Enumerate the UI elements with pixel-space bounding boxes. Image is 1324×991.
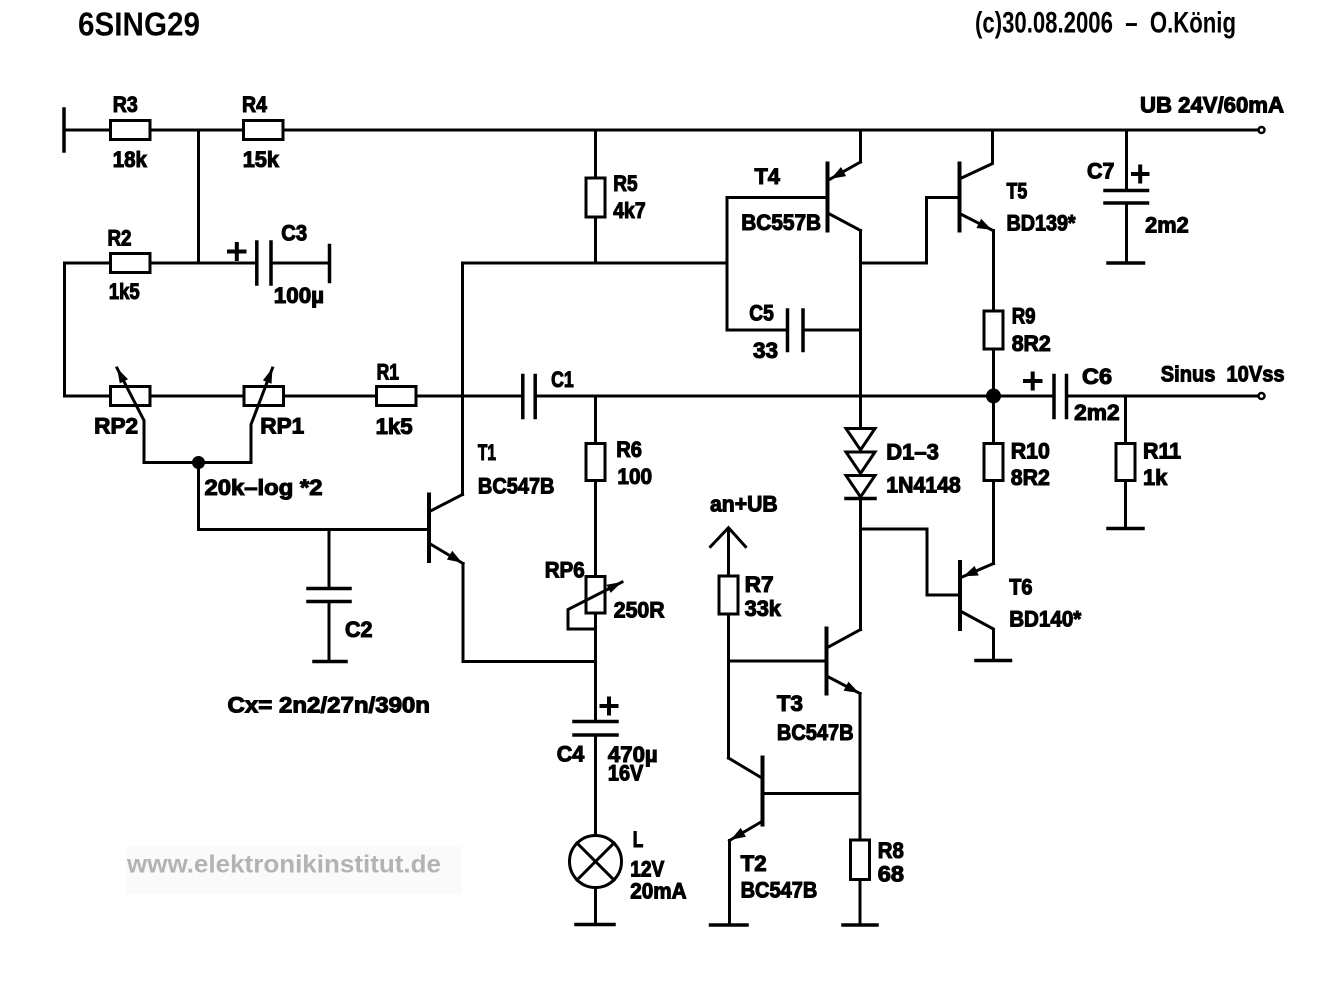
diode D2	[846, 452, 875, 474]
svg-text:20mA: 20mA	[630, 879, 686, 904]
svg-text:15k: 15k	[243, 147, 280, 172]
transistor T4 collector diagonal	[830, 214, 861, 231]
svg-text:1k5: 1k5	[109, 279, 140, 304]
svg-text:1k5: 1k5	[376, 414, 413, 439]
transistor T2 collector diagonal	[729, 758, 762, 778]
svg-text:BD139*: BD139*	[1007, 211, 1076, 236]
ground T6 bar	[976, 659, 1011, 663]
svg-text:BD140*: BD140*	[1009, 607, 1081, 632]
svg-text:R11: R11	[1143, 439, 1181, 464]
svg-text:R7: R7	[745, 572, 774, 597]
transistor T1 emitter diagonal	[430, 544, 464, 564]
node junction dot output	[986, 389, 1001, 404]
svg-text:6SING29: 6SING29	[78, 7, 200, 44]
svg-text:33k: 33k	[745, 596, 782, 621]
svg-text:RP1: RP1	[260, 414, 304, 439]
node input terminal bar left	[62, 109, 66, 151]
ground lamp bar	[576, 923, 614, 927]
potentiometer RP1 wiper	[199, 368, 273, 463]
resistor R6	[586, 444, 605, 481]
transistor T3 emitter diagonal	[829, 677, 861, 694]
transistor T6 collector	[962, 612, 994, 659]
wire output node to R10	[992, 396, 995, 444]
svg-text:C6: C6	[1082, 364, 1112, 389]
transistor T3 base bar	[825, 629, 829, 694]
resistor R4	[244, 121, 284, 140]
svg-text:RP2: RP2	[94, 414, 138, 439]
svg-text:C7: C7	[1087, 158, 1114, 183]
svg-text:T6: T6	[1009, 575, 1032, 600]
wire pot dot to T1 base row	[197, 463, 200, 530]
potentiometer RP6 body	[586, 577, 605, 614]
potentiometer RP1 body	[244, 387, 284, 406]
svg-text:100: 100	[617, 464, 652, 489]
resistor R11	[1116, 444, 1135, 481]
wire T2 base row	[765, 792, 861, 795]
ground T2 bar	[711, 923, 748, 927]
svg-text:2m2: 2m2	[1074, 400, 1120, 425]
svg-text:T1: T1	[478, 440, 496, 465]
transistor T4 base bar	[826, 164, 830, 231]
potentiometer RP6 wiper	[568, 582, 622, 629]
diode D3 cathode bar	[846, 497, 875, 501]
svg-text:R2: R2	[108, 226, 132, 251]
svg-text:T4: T4	[755, 164, 781, 189]
wire T1 base row	[199, 528, 428, 531]
node output terminal circle Sinus	[1259, 393, 1265, 399]
transistor T6 emitter arrowhead	[963, 566, 978, 577]
wire R10 to T6 emitter	[992, 481, 995, 564]
svg-text:C5: C5	[749, 301, 774, 326]
svg-text:R3: R3	[113, 92, 138, 117]
wire C3 right	[273, 262, 328, 265]
transistor T1 collector diagonal	[430, 495, 463, 512]
wire C6 to output terminal	[1069, 395, 1258, 398]
svg-text:L: L	[633, 827, 644, 852]
capacitor C4 plus sign	[602, 704, 617, 708]
capacitor C7	[1125, 130, 1128, 189]
wire T2 emitter to ground	[728, 841, 731, 924]
transistor T5 emitter arrowhead	[977, 219, 992, 230]
wire T4 collector down to diodes	[859, 231, 862, 429]
svg-text:C3: C3	[281, 221, 307, 246]
transistor T3 collector diagonal	[829, 630, 861, 648]
capacitor C5	[727, 329, 786, 332]
wire R5 stem	[594, 130, 597, 263]
svg-text:R6: R6	[616, 437, 642, 462]
transistor T4 emitter top	[859, 130, 862, 162]
node output terminal circle UB	[1259, 127, 1265, 133]
transistor T5 collector	[962, 130, 993, 178]
potentiometer RP2 body	[111, 387, 151, 406]
resistor R3	[111, 121, 151, 140]
resistor R5	[586, 178, 605, 217]
wire T1 emitter down	[463, 564, 596, 662]
svg-text:www.elektronikinstitut.de: www.elektronikinstitut.de	[126, 851, 441, 879]
wire T3 emitter to R8	[859, 694, 862, 841]
resistor R10	[984, 444, 1003, 481]
ground R11 bar	[1108, 527, 1143, 531]
wire T5 emitter to R9	[992, 231, 995, 310]
svg-text:an+UB: an+UB	[710, 492, 778, 517]
potentiometer RP2 wiper	[117, 368, 199, 463]
ground C2 bar	[314, 660, 346, 664]
capacitor C3 plates	[255, 242, 259, 284]
node an+UB arrow chevron	[711, 528, 746, 547]
capacitor C3 plus sign	[229, 250, 245, 254]
transistor T2 emitter arrowhead	[731, 828, 746, 840]
svg-text:BC547B: BC547B	[777, 720, 854, 745]
wire lamp to ground	[594, 888, 597, 924]
wire left drop R2 to RP2	[63, 263, 66, 396]
node junction dot pots	[192, 456, 205, 469]
svg-text:UB 24V/60mA: UB 24V/60mA	[1140, 93, 1284, 118]
wire R11 stem	[1124, 396, 1127, 444]
svg-text:BC547B: BC547B	[741, 878, 818, 903]
wire R11 to ground	[1124, 481, 1127, 528]
wire R6 stem	[594, 396, 597, 444]
resistor R1	[377, 387, 417, 406]
svg-text:T2: T2	[741, 851, 767, 876]
wire row pots to C1	[65, 395, 522, 398]
node C3 terminal bar	[328, 246, 332, 282]
svg-text:Cx= 2n2/27n/390n: Cx= 2n2/27n/390n	[228, 693, 431, 718]
svg-text:R4: R4	[242, 92, 267, 117]
wire C4 to lamp	[594, 737, 597, 836]
svg-text:Sinus 10Vss: Sinus 10Vss	[1161, 362, 1285, 387]
capacitor C6 plates	[1052, 376, 1056, 418]
ground R8 bar	[843, 923, 877, 927]
svg-text:68: 68	[878, 862, 904, 887]
svg-text:250R: 250R	[614, 598, 665, 623]
resistor R9	[984, 311, 1003, 349]
wire diodes to T3/T6	[859, 499, 862, 630]
wire R9 to output node	[992, 351, 995, 397]
svg-text:R10: R10	[1011, 439, 1050, 464]
svg-text:4k7: 4k7	[613, 198, 645, 223]
svg-text:R9: R9	[1012, 304, 1036, 329]
diode D3	[846, 476, 875, 498]
wire row R2/C3	[65, 262, 256, 265]
transistor T3 emitter arrowhead	[844, 682, 859, 693]
ground C7 bar	[1108, 261, 1144, 265]
svg-text:18k: 18k	[113, 147, 147, 172]
wire riser x462	[461, 263, 464, 495]
transistor T1 base bar	[427, 495, 431, 562]
svg-text:2m2: 2m2	[1145, 213, 1189, 238]
resistor R7	[719, 576, 738, 614]
svg-text:(c)30.08.2006 – O.König: (c)30.08.2006 – O.König	[975, 7, 1236, 40]
resistor R8	[851, 840, 870, 880]
capacitor C4 plates	[574, 720, 617, 724]
svg-text:C2: C2	[345, 617, 373, 642]
wire node R3-R4 vertical	[197, 130, 200, 263]
wire T4 base vertical to C5	[726, 198, 729, 331]
svg-text:C1: C1	[551, 367, 574, 392]
transistor T4 emitter arrowhead	[831, 167, 846, 179]
svg-text:RP6: RP6	[545, 558, 585, 583]
transistor T2 base bar	[761, 758, 765, 825]
svg-text:C4: C4	[557, 742, 585, 767]
wire RP6 to C4	[594, 613, 597, 720]
transistor T5 base bar	[958, 164, 962, 231]
svg-text:100µ: 100µ	[274, 283, 324, 308]
wire R7 to T2	[727, 616, 730, 758]
svg-text:R8: R8	[878, 838, 904, 863]
svg-text:20k–log *2: 20k–log *2	[205, 475, 323, 500]
capacitor C6 plus sign	[1025, 379, 1041, 383]
svg-text:D1–3: D1–3	[886, 440, 939, 465]
transistor T6 emitter diagonal	[962, 564, 994, 578]
svg-text:1k: 1k	[1143, 465, 1168, 490]
svg-text:1N4148: 1N4148	[886, 473, 960, 498]
wire T5 base link	[861, 198, 959, 264]
svg-text:R5: R5	[613, 171, 637, 196]
transistor T6 base bar	[958, 562, 962, 629]
potentiometer RP6 wiper arrowhead	[607, 582, 623, 593]
potentiometer RP1 wiper arrowhead	[263, 368, 273, 384]
wire T4 base horizontal	[727, 196, 826, 199]
wire mid row y263	[463, 262, 728, 265]
svg-text:T3: T3	[777, 691, 803, 716]
capacitor C7 plus sign	[1133, 172, 1148, 176]
transistor T5 emitter diagonal	[962, 215, 994, 231]
svg-text:33: 33	[753, 338, 778, 363]
transistor T1 emitter arrowhead	[447, 551, 462, 563]
capacitor C1 plates	[521, 376, 525, 418]
potentiometer RP2 wiper arrowhead	[117, 368, 128, 383]
wire C1 to C6	[537, 395, 1052, 398]
watermark band	[126, 846, 461, 894]
lamp L circle	[570, 836, 622, 888]
svg-text:16V: 16V	[608, 761, 643, 786]
svg-text:8R2: 8R2	[1011, 465, 1050, 490]
svg-text:8R2: 8R2	[1012, 331, 1051, 356]
svg-text:R1: R1	[377, 360, 399, 385]
svg-text:BC547B: BC547B	[478, 473, 555, 498]
wire T3 base row	[729, 660, 826, 663]
wire an+UB arrow stem	[727, 529, 730, 575]
svg-text:T5: T5	[1007, 178, 1028, 203]
wire diode node to T6 base	[861, 529, 959, 595]
capacitor C2	[328, 530, 331, 588]
svg-text:BC557B: BC557B	[741, 210, 821, 235]
wire top supply rail	[65, 129, 1257, 132]
transistor T2 emitter diagonal	[730, 822, 762, 841]
wire R6 to RP6	[594, 481, 597, 577]
resistor R2	[111, 254, 151, 273]
diode D1	[846, 429, 875, 451]
wire R8 to ground	[859, 880, 862, 924]
